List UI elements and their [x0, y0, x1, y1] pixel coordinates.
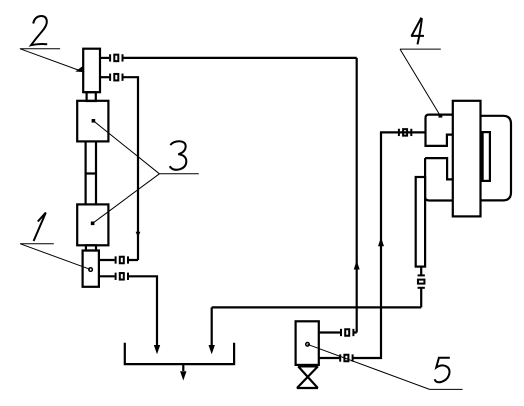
- wire: right vertical down to pump upper port: [356, 58, 358, 333]
- label 5 shelf and leader: [306, 343, 463, 390]
- label 1 shelf and leader: [20, 244, 92, 272]
- label 5: [435, 358, 450, 382]
- label 2 shelf and leader: [20, 49, 85, 72]
- collecting tank: [125, 343, 234, 364]
- valve V3: [116, 256, 128, 263]
- wire: vessel1 upper port line: [99, 259, 138, 261]
- pump hourglass base: [297, 366, 318, 388]
- label 4 shelf and leader: [400, 49, 442, 118]
- wire: vessel2 upper port to valve V1: [100, 57, 109, 59]
- wire: top long run to right: [123, 57, 357, 59]
- wire: bottom horizontal main: [212, 306, 422, 308]
- apparatus 4: upper-left jacket box: [426, 115, 453, 146]
- flow arrow up on riser to apparatus 4: [378, 237, 384, 246]
- wire: pump upper port: [319, 331, 357, 333]
- wire: vessel2 lower port to valve V2: [100, 76, 109, 78]
- heater box 3a (upper): [77, 101, 108, 142]
- valve V8 (vertical): [418, 275, 425, 287]
- rotameter tube: [416, 177, 425, 267]
- flow arrow down on downcomer: [136, 232, 141, 237]
- wire: pump lower port: [319, 132, 426, 358]
- valve V5: [341, 329, 353, 336]
- label 3: [170, 141, 187, 170]
- label 3 shelf and leaders: [91, 119, 199, 225]
- vessel V1 (item 1): [83, 251, 99, 287]
- vessel V2 (condenser top, item 2): [83, 49, 100, 92]
- flow arrow up on vertical wire: [354, 261, 360, 270]
- label 1: [34, 213, 46, 241]
- neck between vessel 2 and upper heater: [87, 92, 96, 101]
- wire: to recycle downcomer: [123, 77, 138, 260]
- valve V7 (feed into apparatus 4): [399, 129, 411, 136]
- valve V6: [340, 354, 352, 361]
- neck between lower heater and vessel 1: [86, 245, 96, 250]
- wire: return line into tank (right): [211, 307, 213, 345]
- tank drain arrow: [182, 364, 184, 371]
- heater box 3b (lower): [77, 204, 108, 245]
- apparatus 4: right jacket (rounded right corners): [480, 116, 511, 201]
- apparatus 4: lower-left jacket box: [425, 158, 453, 200]
- arrow into tank (left): [154, 345, 160, 354]
- apparatus 4: inner right tube: [483, 132, 490, 181]
- valve V2: [110, 74, 122, 81]
- valve V4: [116, 273, 128, 280]
- pump P (item 5): [296, 321, 319, 365]
- label 4: [411, 18, 424, 45]
- arrow into tank (right): [209, 345, 215, 354]
- wire: rotameter to valve V8: [420, 267, 422, 308]
- valve V1: [110, 54, 122, 61]
- apparatus 4: central column: [453, 101, 481, 217]
- tube between heaters: [86, 141, 96, 204]
- wire: vessel1 lower port to drain: [99, 276, 157, 345]
- label 2: [31, 16, 47, 45]
